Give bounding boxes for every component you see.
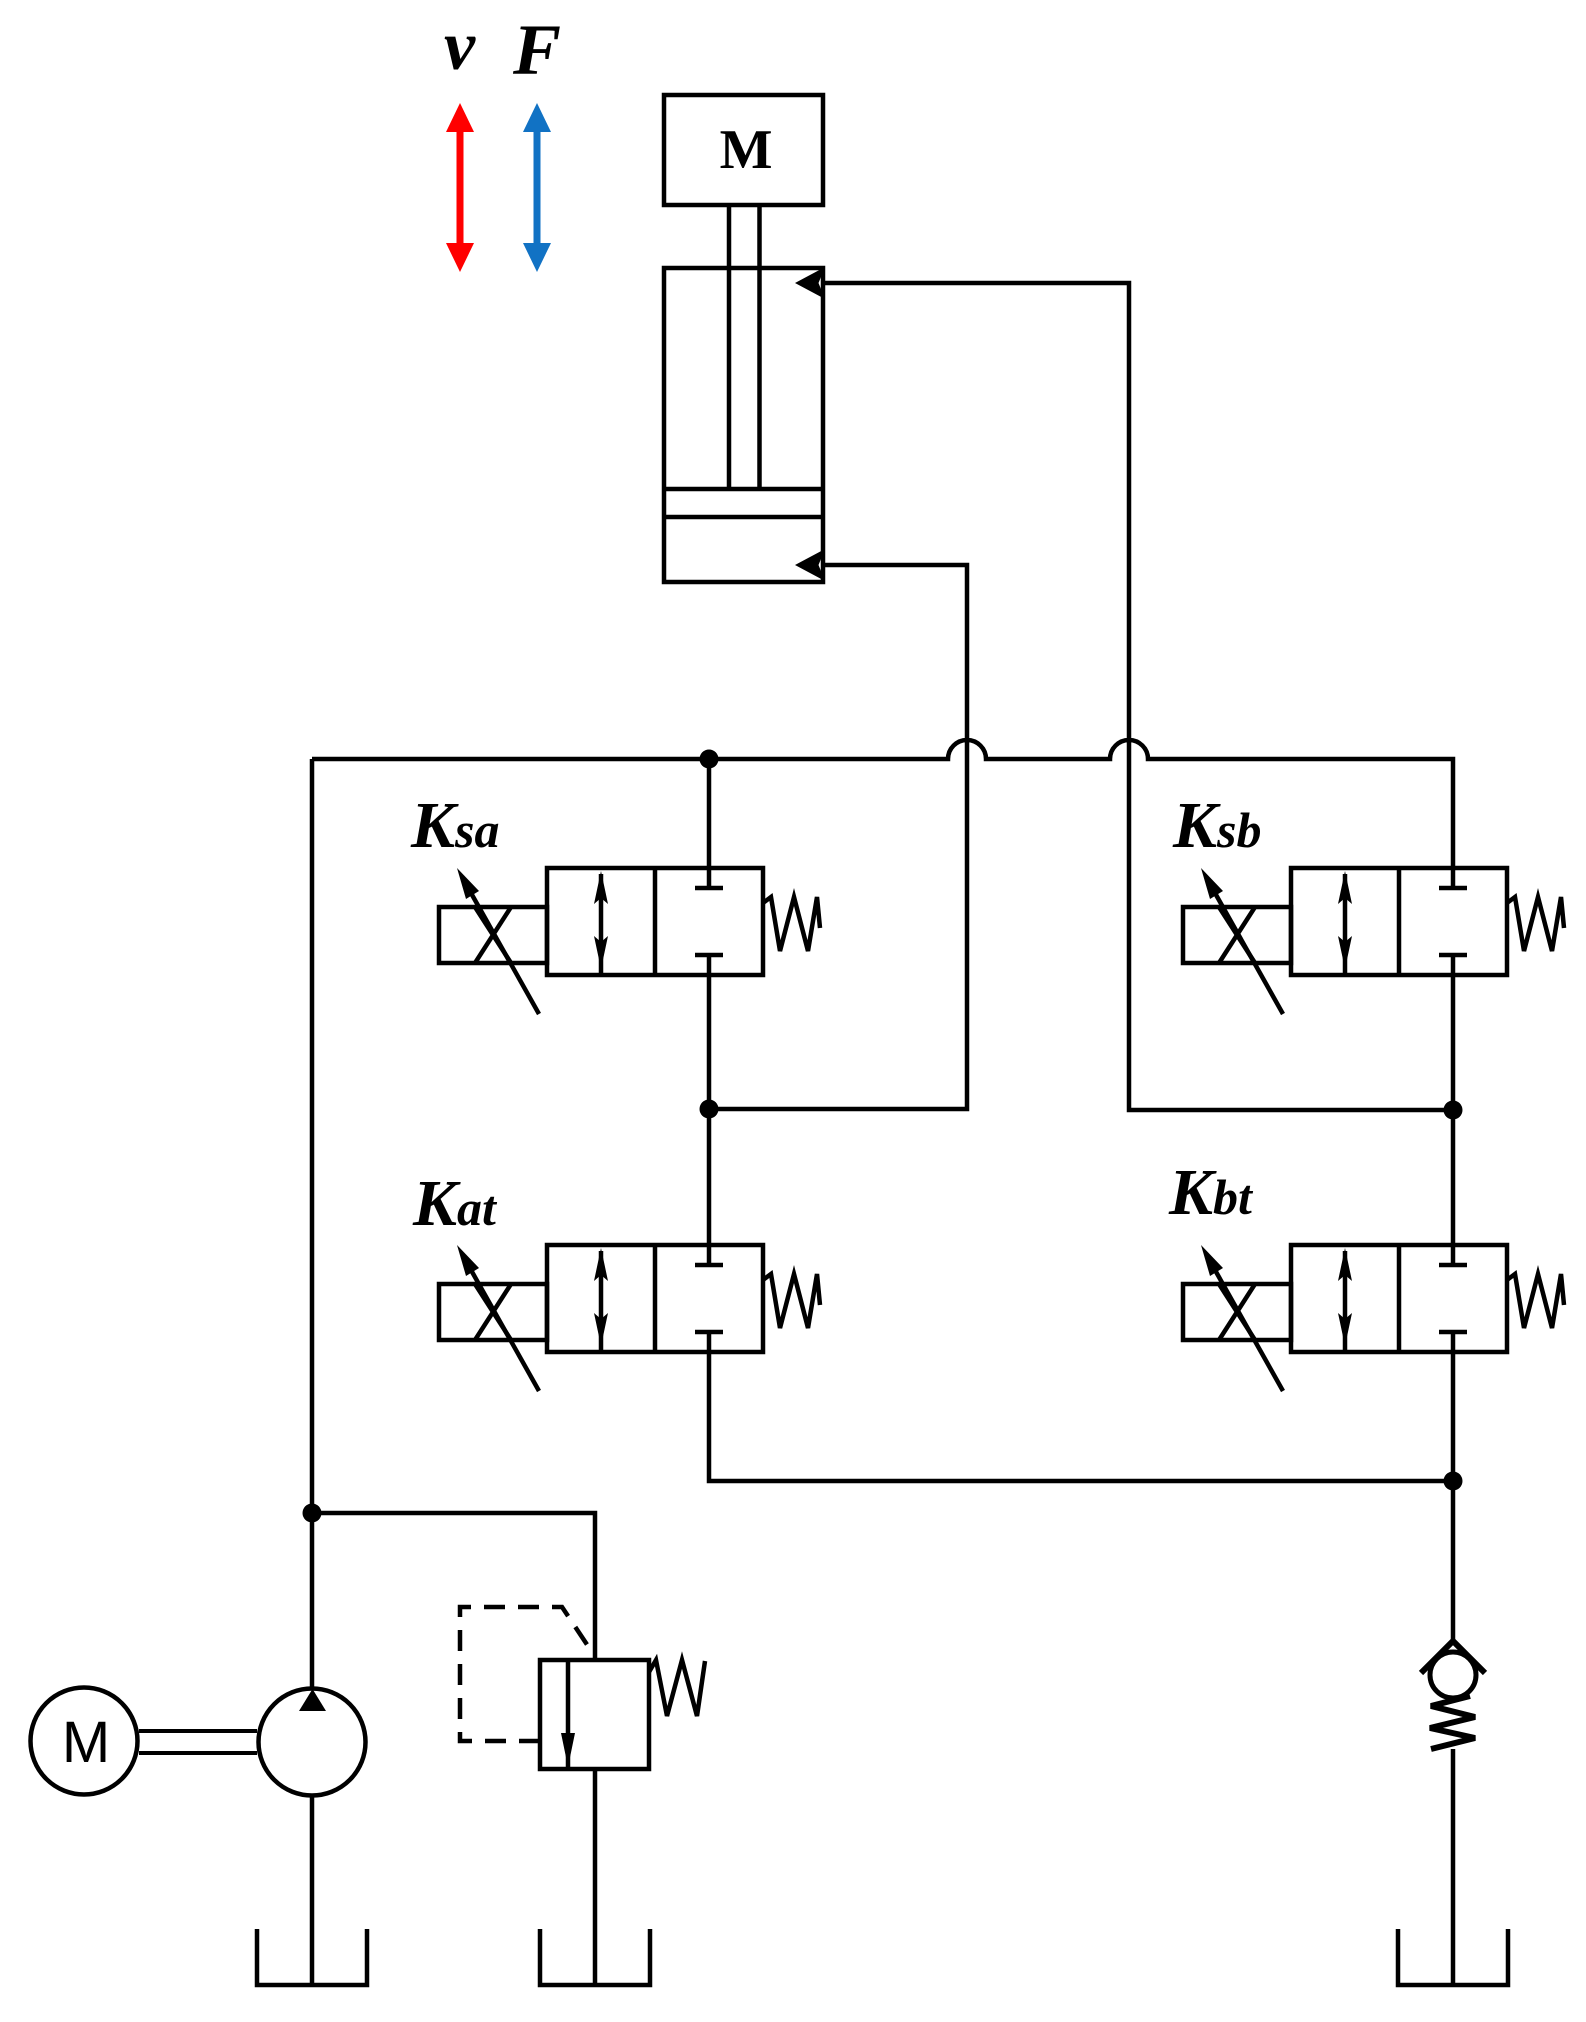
valve Ksa body (2/2, closed centre) [547, 868, 763, 975]
mass load box M [664, 95, 823, 205]
valve Kbt return spring [1507, 1274, 1564, 1328]
svg-text:F: F [512, 10, 561, 90]
cylinder port A arrow [795, 267, 825, 299]
tank T2 [540, 1929, 650, 1985]
wire: pump supply bus with crossover hops [312, 740, 1453, 868]
wire: check valve to tank T3 [1451, 1749, 1456, 1985]
relief valve body [540, 1660, 649, 1769]
wire: node NA to Kat top port [707, 1109, 712, 1245]
junction node NT (tank header/check valve) [1444, 1472, 1463, 1491]
valve Kat proportional solenoid [439, 1245, 547, 1391]
wire: port A line (cylinder rod-side to node NB) [821, 283, 1453, 1110]
wire: port B line (cylinder piston-side to node NA) [709, 565, 967, 1109]
wire: Ksa top port [707, 759, 712, 868]
valve Kbt body (2/2, closed centre) [1291, 1245, 1507, 1352]
velocity double arrow (red) [446, 103, 474, 272]
hydraulic pump [259, 1689, 366, 1796]
valve Kat return spring [763, 1274, 820, 1328]
wire: pump suction to tank T1 [310, 1797, 315, 1985]
junction node NB (Ksb-Kbt-port A) [1444, 1101, 1463, 1120]
svg-text:M: M [62, 1710, 110, 1775]
valve Ksb return spring [1507, 897, 1564, 951]
valve Ksa return spring [763, 897, 820, 951]
svg-text:v: v [444, 8, 476, 85]
check valve seat [1421, 1641, 1485, 1673]
relief valve pilot line (dashed) [460, 1607, 594, 1741]
relief valve flow arrow [561, 1733, 575, 1767]
svg-text:Ksa: Ksa [410, 789, 500, 862]
wire: relief valve branch [312, 1513, 595, 1660]
valve Ksa proportional solenoid [439, 868, 547, 1014]
wire: Ksa bottom port to node NA [707, 975, 712, 1109]
valve Ksb body (2/2, closed centre) [1291, 868, 1507, 975]
junction node pump outlet tee [303, 1504, 322, 1523]
wire: relief valve outlet to tank T2 [593, 1769, 598, 1985]
check valve spring [1430, 1696, 1475, 1749]
wire: Kat bottom port to tank header [709, 1354, 1453, 1481]
wire: Kbt bottom port to node NT [1451, 1354, 1456, 1481]
check valve ball [1430, 1652, 1476, 1698]
svg-text:Kat: Kat [412, 1167, 498, 1240]
svg-text:Kbt: Kbt [1168, 1156, 1254, 1229]
wire: left supply riser [310, 759, 315, 1687]
wire: node NT to check valve [1451, 1481, 1456, 1643]
wire: Ksb bottom port to node NB [1451, 975, 1456, 1110]
pump flow triangle [299, 1689, 326, 1711]
electric motor M [31, 1688, 138, 1795]
tank T1 [257, 1929, 367, 1985]
wire: node NB to Kbt top port [1451, 1110, 1456, 1245]
hydraulic cylinder barrel [664, 268, 823, 582]
valve Ksb proportional solenoid [1183, 868, 1291, 1014]
junction node NA (Ksa-Kat-port B) [700, 1100, 719, 1119]
junction node bus/Ksa tee [700, 750, 719, 769]
piston [664, 489, 823, 517]
valve Kbt proportional solenoid [1183, 1245, 1291, 1391]
svg-text:Ksb: Ksb [1172, 789, 1262, 862]
force double arrow (blue) [523, 103, 551, 272]
cylinder port B arrow [795, 549, 825, 581]
tank T3 [1398, 1929, 1508, 1985]
valve Kat body (2/2, closed centre) [547, 1245, 763, 1352]
motor-pump shaft [139, 1731, 257, 1753]
relief valve spring [649, 1660, 705, 1716]
piston rod [729, 205, 760, 489]
svg-text:M: M [720, 119, 773, 181]
